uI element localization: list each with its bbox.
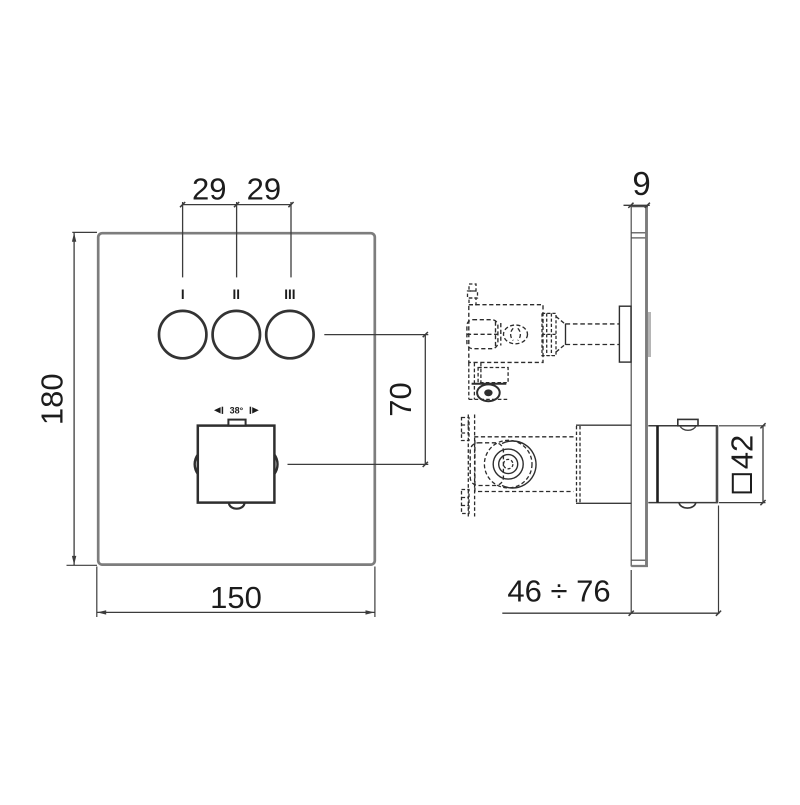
svg-text:180: 180	[35, 373, 70, 425]
knob right grip arc	[274, 455, 277, 475]
lower bracket rail	[462, 415, 475, 517]
lower valve body hidden outline	[470, 437, 573, 492]
dimension 150	[96, 567, 98, 618]
plate boss block	[619, 306, 631, 362]
dimension 9	[624, 204, 650, 206]
upper button ellipse	[504, 325, 528, 344]
knob side bottom tab	[679, 503, 696, 508]
button protrusion shading	[648, 312, 651, 357]
side view wall plate right edge	[645, 205, 648, 566]
upper thread section	[542, 313, 556, 355]
svg-text:70: 70	[383, 382, 418, 416]
upper stem hidden	[566, 324, 620, 345]
dimension 29-29 lines	[183, 204, 291, 206]
svg-text:29: 29	[247, 172, 281, 207]
plate bottom edge	[631, 565, 648, 567]
side view wall plate left edge	[630, 205, 632, 566]
svg-text:9: 9	[632, 165, 650, 202]
button I circle	[159, 311, 206, 358]
upper cone neck	[556, 317, 566, 353]
svg-text:I: I	[181, 287, 185, 302]
svg-text:38°: 38°	[230, 406, 244, 416]
dimension 70	[324, 334, 428, 336]
38 degree marker right arrow	[252, 407, 259, 413]
svg-text:150: 150	[210, 580, 262, 615]
knob left grip arc	[195, 455, 198, 475]
dimension 42	[719, 425, 766, 427]
fixing bolt	[477, 384, 500, 401]
knob side top tab	[678, 419, 698, 425]
cartridge dome arc	[502, 441, 536, 488]
knob bottom button arc	[229, 503, 245, 509]
lower sleeve dashed edge	[577, 426, 581, 503]
button III circle	[266, 311, 313, 358]
bracket dark line	[472, 383, 507, 385]
svg-text:42: 42	[724, 435, 759, 469]
knob side view	[648, 425, 717, 427]
dimension 46-76	[630, 570, 632, 614]
upper inlet stub	[468, 284, 478, 305]
dimension 180	[72, 231, 97, 233]
lower sleeve body	[576, 424, 632, 426]
svg-text:II: II	[233, 287, 241, 302]
thermostatic cartridge circles	[484, 440, 532, 488]
svg-text:46 ÷ 76: 46 ÷ 76	[507, 574, 610, 609]
thermostat knob square	[198, 426, 275, 503]
plate front edge line upper	[631, 232, 645, 234]
upper valve body hidden outline	[469, 305, 543, 363]
plate lower inner line	[631, 559, 645, 561]
dimension square symbol	[733, 474, 751, 492]
knob top tab	[228, 420, 245, 426]
svg-text:III: III	[284, 287, 295, 302]
svg-text:29: 29	[192, 172, 226, 207]
38 degree marker left arrow	[214, 407, 221, 413]
upper fixing bracket	[469, 363, 508, 400]
button II circle	[213, 311, 260, 358]
plate top edge	[631, 206, 648, 208]
front panel plate 150x180	[98, 233, 375, 564]
upper hex cap	[467, 320, 501, 349]
